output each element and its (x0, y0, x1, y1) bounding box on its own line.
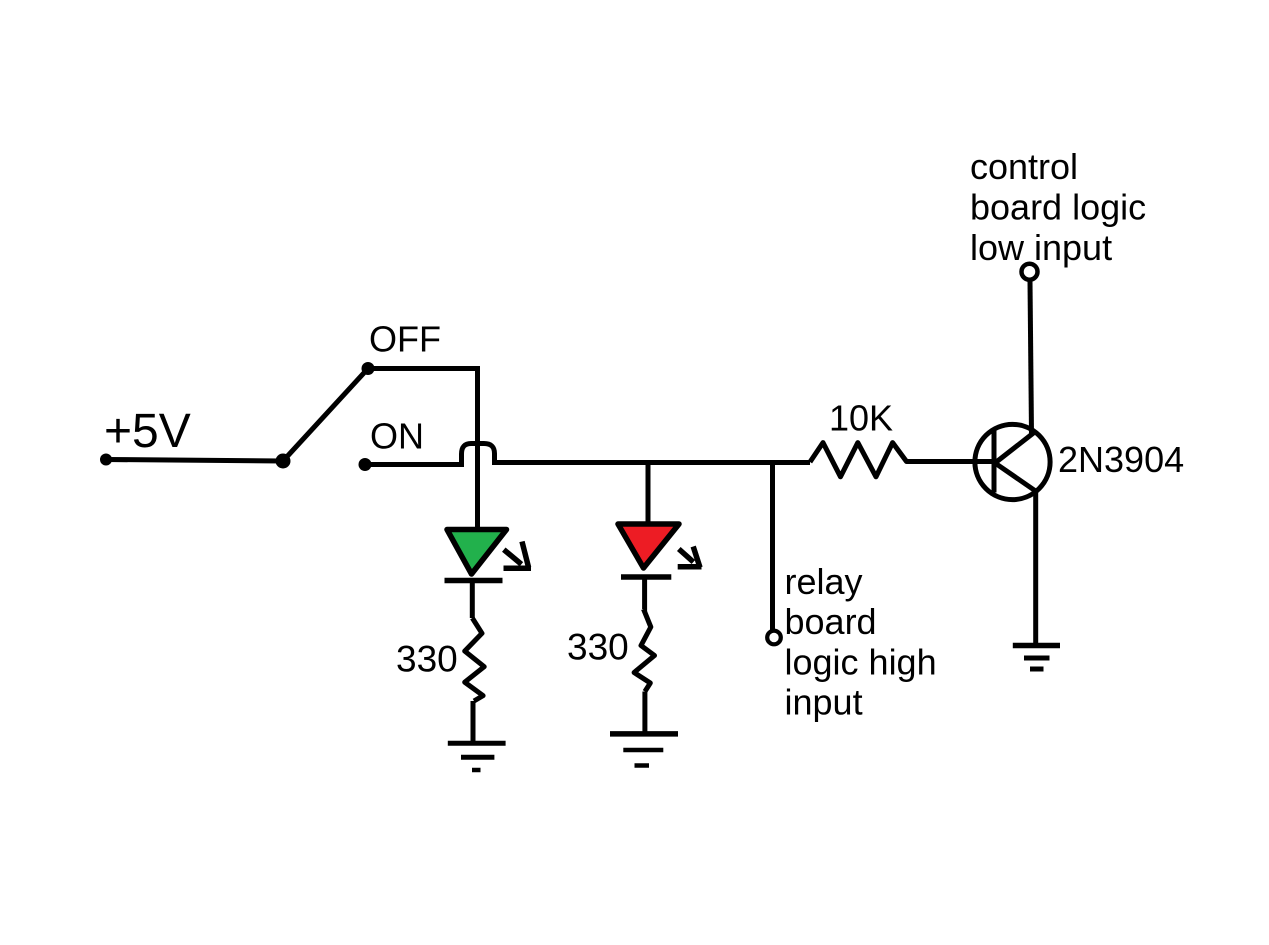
svg-text:OFF: OFF (369, 319, 441, 360)
resistor R3 10K zigzag (810, 443, 992, 477)
wire: D2 cathode to R2 (with kink) (644, 578, 645, 610)
resistor R2 330 zigzag (634, 609, 654, 692)
wire: collector lead (1030, 281, 1032, 434)
wire: R2 to ground (642, 692, 647, 734)
LED D2 red triangle (618, 524, 679, 568)
LED D1 green triangle (447, 530, 507, 575)
svg-text:logic high: logic high (785, 641, 937, 682)
svg-text:relay: relay (785, 561, 863, 602)
svg-text:2N3904: 2N3904 (1058, 439, 1184, 480)
arrow: D1 light emission (504, 542, 532, 569)
terminal: control board open circle (1022, 264, 1038, 280)
node: +5V terminal dot (100, 454, 112, 466)
node: ON throw dot (359, 458, 372, 471)
svg-text:10K: 10K (829, 398, 893, 439)
transistor Q1 emitter diagonal (995, 463, 1037, 492)
wire: relay branch drop (770, 462, 775, 630)
wire: +5V lead (106, 460, 282, 462)
wire: ON stub with hop over vertical (365, 444, 810, 465)
wire: D1 cathode to R1 (470, 581, 475, 618)
svg-text:input: input (785, 681, 863, 722)
LED D2 cathode bar (621, 574, 671, 580)
svg-text:330: 330 (396, 639, 458, 680)
svg-text:330: 330 (567, 627, 629, 668)
wire: R1 to ground (471, 701, 476, 742)
node: switch common junction dot (276, 454, 291, 469)
transistor Q1 circle (975, 424, 1050, 499)
svg-text:control: control (970, 146, 1078, 187)
svg-text:+5V: +5V (104, 405, 191, 458)
terminal: relay board open circle (767, 631, 781, 645)
ground: under R2 (610, 734, 678, 766)
arrow: D2 light emission (678, 547, 702, 568)
svg-text:ON: ON (370, 416, 424, 457)
ground: under Q1 emitter (1013, 646, 1060, 670)
switch SW1 arm (283, 369, 368, 462)
resistor R1 330 zigzag (465, 618, 485, 701)
node: OFF throw dot (362, 362, 375, 375)
wire: emitter lead (1033, 489, 1038, 645)
wire: OFF horizontal and vertical down to green LED (368, 369, 478, 528)
ground: under R1 (448, 743, 506, 770)
LED D1 cathode bar (445, 578, 503, 584)
transistor Q1 collector diagonal (995, 431, 1036, 463)
svg-text:board logic: board logic (970, 186, 1146, 227)
svg-text:board: board (785, 601, 877, 642)
transistor Q1 base bar (992, 430, 997, 493)
svg-text:low input: low input (970, 227, 1112, 268)
wire: red LED anode drop (646, 462, 651, 523)
